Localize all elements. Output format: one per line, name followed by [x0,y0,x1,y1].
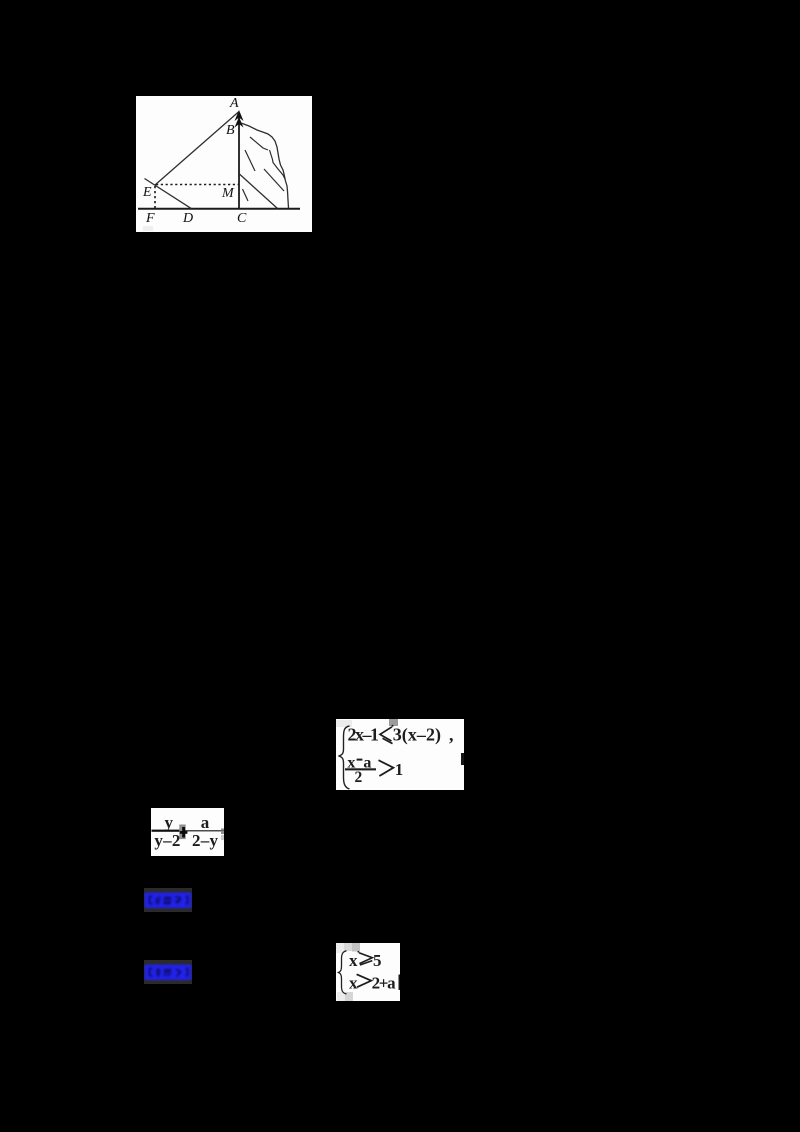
geq glyph [357,951,372,965]
svg-text:1: 1 [395,760,404,779]
denominator 2 [355,769,363,786]
label A [229,96,239,111]
svg-text:3(x–2): 3(x–2) [393,725,441,746]
svg-text:2: 2 [355,769,363,786]
svg-text:a: a [201,813,210,832]
mountain inner cliff [270,150,286,179]
svg-text:,: , [449,725,454,745]
text cursor [399,975,401,991]
run 3(x-2) [393,725,441,746]
denominator y-2 [154,831,180,850]
svg-text:M: M [221,186,235,201]
svg-text:x: x [349,951,358,970]
line DE extended [145,179,192,209]
dotted line EF [154,186,156,208]
top gray dark [352,943,360,952]
plus sign [180,827,188,838]
numerator a [201,813,210,832]
faint smudge [143,226,153,231]
blue highlighted label 2 [144,960,192,984]
denominator 2-y [192,831,219,850]
mountain hatch d [264,169,284,191]
right edge equals mark [221,828,224,840]
blue band [145,893,192,909]
line2 x [349,973,358,992]
svg-text:y–2: y–2 [154,831,180,850]
system of inequalities 1 [336,719,464,790]
svg-text:A: A [229,96,239,111]
label D [182,211,193,226]
svg-text:y: y [165,813,174,832]
arrowhead second [235,117,244,128]
svg-text:5: 5 [373,951,382,970]
blue band [145,965,192,981]
run 2x-1 [348,725,380,745]
digit 5 [373,951,382,970]
system of inequalities 2 [336,943,400,1001]
figure: surveying diagram image [136,96,312,232]
bottom gray 2 [345,992,353,1001]
mountain hatch f [243,189,249,201]
mountain outline [241,123,289,208]
glyph marks [150,897,188,905]
numerator a [363,755,371,772]
run 2+a [372,973,397,992]
mountain hatch b [245,150,255,171]
dotted line EM [156,184,239,186]
svg-text:2–y: 2–y [192,831,219,850]
label F [145,211,155,226]
greater than [379,760,394,776]
svg-text:F: F [145,211,155,226]
raised minus [357,759,363,761]
svg-text:B: B [226,123,235,138]
arrowhead top [235,110,244,121]
right notch [461,753,464,765]
brace [339,726,350,789]
selection mark light [336,720,352,727]
label C [237,211,247,226]
ground line FC [138,208,300,210]
svg-text:D: D [182,211,193,226]
numerator y [165,813,174,832]
fraction bar [345,768,376,770]
svg-text:2x–1: 2x–1 [348,725,380,745]
gt glyph [357,974,372,987]
fraction equation y/(y-2) + a/(2-y) [151,808,224,856]
label M [221,186,235,201]
less-or-equal glyph [380,725,394,744]
svg-text:E: E [142,185,152,200]
label B [226,123,235,138]
digit 1 [395,760,404,779]
numerator x [347,755,355,772]
fraction bar 2 [185,830,224,831]
selection mark gray [389,719,398,726]
svg-text:C: C [237,211,247,226]
line x>=5 x [349,951,358,970]
vertical mast CBA [238,116,240,209]
line EA [155,112,239,186]
comma [449,725,454,745]
blue highlighted label 1 [144,888,192,912]
top-left light gray [336,943,344,953]
svg-text:2+a: 2+a [372,973,397,992]
brace [339,951,347,994]
top gray light [344,943,352,951]
label E [142,185,152,200]
bottom gray [337,992,345,1001]
glyph marks [150,968,188,976]
mountain big slope [239,174,277,209]
selection gray block [179,825,185,840]
svg-text:x: x [349,973,358,992]
fraction bar 1 [152,830,182,832]
mountain hatch a [250,137,268,150]
